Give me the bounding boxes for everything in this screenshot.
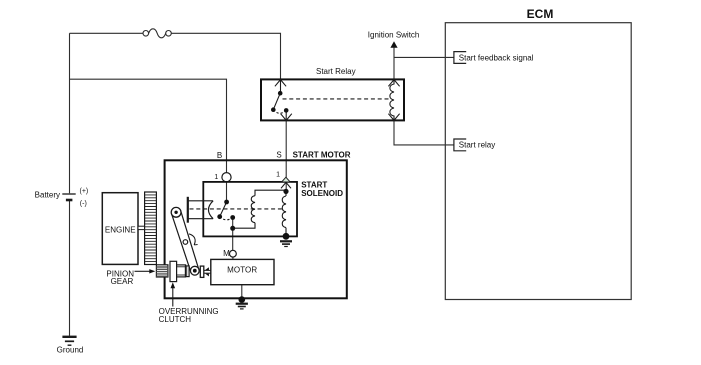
svg-text:ECM: ECM (527, 7, 554, 21)
svg-text:MOTOR: MOTOR (227, 265, 257, 274)
svg-text:(+): (+) (80, 188, 89, 195)
svg-text:1: 1 (276, 171, 280, 178)
svg-text:GEAR: GEAR (111, 277, 134, 286)
svg-text:Start Relay: Start Relay (316, 67, 356, 76)
svg-text:B: B (217, 151, 222, 160)
svg-text:Start feedback signal: Start feedback signal (459, 53, 534, 62)
svg-text:SOLENOID: SOLENOID (301, 189, 343, 198)
svg-text:Start relay: Start relay (459, 141, 495, 150)
svg-text:Ground: Ground (57, 345, 84, 354)
svg-text:M: M (223, 249, 230, 258)
svg-text:CLUTCH: CLUTCH (159, 315, 192, 324)
svg-text:START MOTOR: START MOTOR (293, 150, 351, 159)
svg-text:S: S (276, 151, 281, 160)
svg-text:ENGINE: ENGINE (105, 226, 136, 235)
svg-text:1: 1 (214, 174, 218, 181)
svg-text:Ignition Switch: Ignition Switch (368, 31, 420, 40)
svg-text:(-): (-) (80, 200, 87, 207)
svg-text:Battery: Battery (35, 191, 60, 200)
